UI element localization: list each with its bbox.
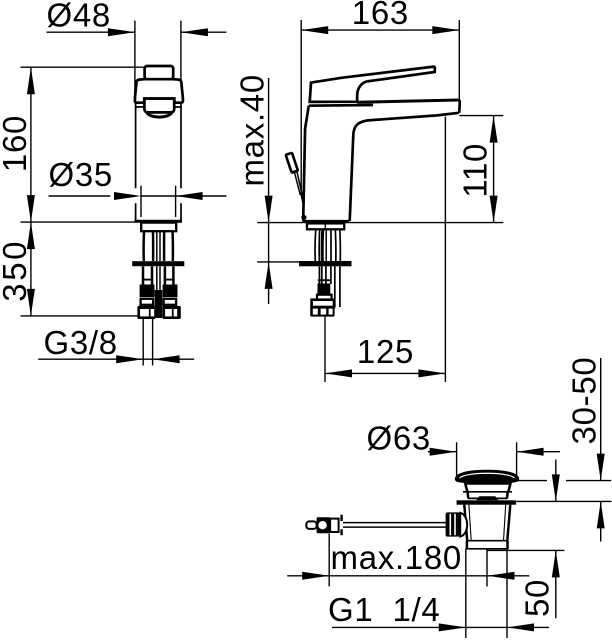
- faucet center line extension side view: [324, 317, 326, 382]
- dimension 125 line: [325, 372, 445, 374]
- hose crimp right front: [163, 285, 178, 298]
- drain tailpiece bottom divider: [467, 540, 509, 542]
- hose right inner upper front: [163, 231, 166, 261]
- pull rod knob side view: [286, 153, 298, 173]
- threaded rod upper front: [157, 231, 160, 261]
- arrow 160 top: [27, 67, 35, 94]
- hose crimp divider side view: [318, 279, 330, 281]
- faucet body bottom bar front: [135, 220, 183, 223]
- shank rod side view: [325, 231, 327, 262]
- dimension Ø48 arrow right: [181, 28, 208, 36]
- pull rod stub side view: [302, 194, 304, 205]
- drain tailpiece bottom left: [466, 541, 469, 549]
- hex nut right front: [163, 306, 181, 319]
- arrow 30-50 top: [597, 454, 605, 481]
- svg-text:110: 110: [457, 143, 494, 198]
- faucet body top line side view: [309, 104, 373, 107]
- hex nut side view upper: [312, 300, 334, 307]
- drain pull rod socket: [446, 512, 461, 536]
- base plinth side view: [307, 223, 344, 229]
- dimension max.180 arrow left: [302, 572, 329, 580]
- dimension max.180 line: [287, 575, 529, 577]
- faucet body back edge and spout underside side view: [350, 113, 459, 221]
- dimension Ø63 line: [428, 451, 560, 453]
- dimension G3/8 line: [38, 358, 194, 360]
- dimension 163 arrow left: [301, 26, 328, 34]
- dimension Ø63 arrow left: [430, 448, 457, 456]
- plinth center line side view: [324, 223, 326, 229]
- extension line G3/8 left: [142, 318, 144, 365]
- arrow 110 top: [490, 116, 498, 143]
- dimension G1 arrow left: [439, 623, 466, 631]
- drain pull rod ball: [460, 513, 467, 537]
- extension line Ø35 left: [140, 186, 142, 217]
- dimension 50 line: [555, 460, 557, 619]
- extension line G3/8 right: [152, 318, 154, 365]
- dimension max.180 arrow right: [488, 572, 515, 580]
- dimension Ø48 line: [47, 31, 227, 33]
- hose crimp left front: [140, 285, 155, 298]
- hose fitting side view: [317, 295, 332, 300]
- svg-text:163: 163: [352, 0, 409, 31]
- extension line Ø63 left: [456, 442, 458, 478]
- 30-50 reference line lower: [517, 500, 612, 502]
- svg-text:125: 125: [357, 333, 414, 370]
- arrow 160 bottom: [27, 195, 35, 222]
- dimension Ø48 arrow left: [108, 28, 135, 36]
- faucet handle collar front: [135, 79, 183, 103]
- drain center line below: [486, 549, 488, 587]
- extension line max.180 left: [328, 534, 330, 587]
- drain plug shadow: [476, 496, 498, 500]
- dimension 163 arrow right: [432, 26, 459, 34]
- svg-text:Ø35: Ø35: [49, 156, 113, 193]
- deck line side view: [257, 222, 503, 224]
- extension line 125 right: [444, 117, 446, 383]
- arrow max.40 bottom: [265, 262, 273, 289]
- hex nut side view lower: [310, 307, 334, 317]
- faucet lever side view: [310, 67, 435, 102]
- 50 top reference line: [488, 549, 565, 551]
- drain tailpiece bottom right: [506, 541, 509, 549]
- faucet body left side front: [135, 103, 137, 220]
- extension line G1 right: [506, 549, 508, 638]
- hose fitting right front: [164, 299, 177, 305]
- faucet body right side front: [180, 103, 182, 220]
- extension line 163 right: [458, 20, 460, 100]
- drain tier2 divider: [468, 497, 507, 499]
- svg-text:50: 50: [518, 579, 555, 617]
- extension line 163 left: [300, 20, 302, 194]
- dimension 125 arrow left: [325, 369, 352, 377]
- dimension Ø35 line: [49, 195, 227, 197]
- hose end line front view: [21, 315, 139, 317]
- svg-text:30-50: 30-50: [566, 357, 603, 445]
- arrow 350 bottom: [27, 289, 35, 316]
- shank dark streak side view: [321, 231, 324, 262]
- drain tailpiece left side: [464, 505, 467, 541]
- pull rod pins: [340, 515, 342, 536]
- extension line G1 left: [465, 549, 467, 638]
- drain neck divider: [463, 491, 512, 493]
- svg-text:G1 1/4: G1 1/4: [328, 591, 440, 628]
- extension line Ø35 right: [175, 186, 177, 217]
- dimension G3/8 arrow right: [153, 355, 180, 363]
- dimension 125 arrow right: [418, 369, 445, 377]
- svg-text:350: 350: [0, 239, 33, 302]
- dimension Ø35 arrow left: [114, 192, 141, 200]
- hex nut left front: [137, 306, 155, 319]
- rod end front: [155, 290, 163, 318]
- drain tailpiece inner lines: [469, 505, 506, 541]
- hose left lower front: [143, 266, 152, 284]
- svg-text:G3/8: G3/8: [44, 324, 118, 361]
- faucet body top edge front: [135, 106, 182, 108]
- drain flange: [457, 500, 517, 504]
- hose left inner upper front: [152, 231, 155, 261]
- reference line 160 top: [21, 66, 145, 68]
- drain tier2 sides: [468, 492, 508, 499]
- arrow 30-50 bottom: [597, 501, 605, 528]
- 30-50 reference line upper: [518, 480, 611, 482]
- dimension Ø35 line middle: [141, 195, 176, 197]
- drain tailpiece right side: [507, 505, 510, 541]
- faucet body front edge side view: [303, 106, 309, 221]
- drain cap dome: [455, 470, 519, 484]
- hose right lower front: [165, 266, 174, 284]
- pull rod clamp: [317, 517, 331, 533]
- dimension Ø63 arrow right: [517, 448, 544, 456]
- arrow 350 top: [27, 222, 35, 249]
- drain cap under line: [465, 483, 510, 485]
- threaded rod lower front: [157, 266, 160, 290]
- dimension 110 reference top: [459, 115, 503, 117]
- hose crimp side view: [318, 284, 331, 295]
- dimension 163 line: [301, 29, 459, 31]
- hose divider right front: [164, 279, 175, 281]
- mounting washer side view: [299, 261, 352, 266]
- arrow 50 top: [552, 474, 560, 501]
- pull rod side view: [295, 171, 302, 195]
- hose fitting left front: [141, 299, 154, 305]
- svg-text:Ø48: Ø48: [47, 0, 111, 34]
- shank hoses upper side view: [315, 231, 340, 262]
- deck bottom line side view: [257, 261, 299, 263]
- faucet spout top side view: [357, 100, 458, 102]
- arrow max.40 top: [265, 196, 273, 223]
- faucet base block front: [141, 223, 176, 232]
- drain neck side lines: [465, 482, 511, 491]
- hoses below washer side view: [319, 266, 331, 284]
- extension line Ø63 right: [516, 442, 518, 478]
- faucet body bottom bar side view: [302, 220, 349, 223]
- pull rod horizontal lines: [343, 523, 446, 528]
- extension line Ø48 left: [134, 21, 136, 101]
- svg-text:max.180: max.180: [331, 539, 462, 576]
- faucet spout right edge side view: [458, 100, 460, 113]
- extension line Ø48 right: [180, 21, 182, 101]
- dimension max.40 line: [268, 78, 270, 304]
- deck line front view: [21, 221, 136, 223]
- pull rod entry bump side view: [301, 215, 306, 220]
- arrow 50 bottom: [552, 550, 560, 577]
- hose right outer upper front: [171, 231, 174, 261]
- arrow 110 bottom: [490, 196, 498, 223]
- mounting washer front: [132, 261, 184, 266]
- pull rod tip: [306, 521, 316, 529]
- dimension Ø35 arrow right: [176, 192, 203, 200]
- hose divider left front: [142, 279, 153, 281]
- dimension 160/350 vertical line: [30, 67, 32, 316]
- dimension 110 line: [493, 116, 495, 223]
- hose right pair side view: [335, 266, 340, 307]
- hose left outer upper front: [142, 231, 145, 261]
- drain cap inner highlight: [460, 473, 515, 478]
- faucet handle bulge front: [147, 113, 172, 118]
- dimension 30-50 line: [600, 358, 602, 542]
- dimension G3/8 arrow left: [116, 355, 143, 363]
- faucet handle disc front: [144, 99, 174, 113]
- faucet handle cap front: [145, 66, 174, 79]
- dimension G1 arrow right: [507, 623, 534, 631]
- svg-text:160: 160: [0, 115, 33, 172]
- svg-text:max.40: max.40: [234, 74, 271, 186]
- drain tailpiece bottom edge: [466, 548, 509, 550]
- dimension G1 1/4 line: [332, 626, 549, 628]
- svg-text:Ø63: Ø63: [367, 419, 431, 456]
